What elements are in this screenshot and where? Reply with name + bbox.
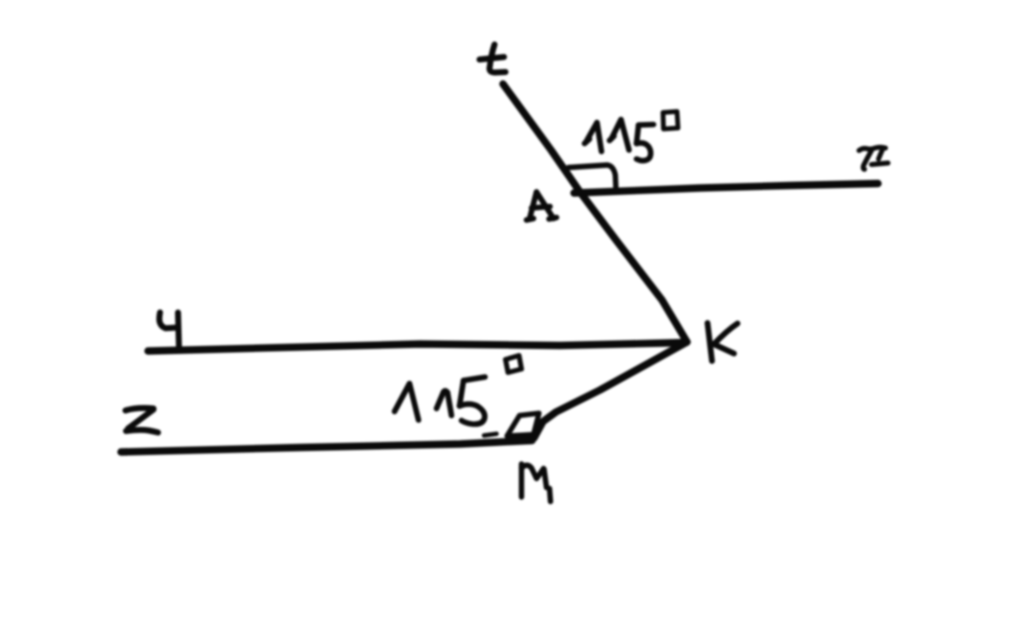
label x bbox=[859, 147, 888, 169]
label y bbox=[159, 313, 179, 349]
small tick left of angle marker at M bbox=[484, 434, 497, 436]
angle value 115 deg at A bbox=[585, 112, 679, 161]
label K bbox=[708, 323, 738, 361]
label z bbox=[126, 408, 159, 432]
label A bbox=[527, 192, 557, 220]
ray A to x bbox=[574, 184, 878, 194]
angle marker at A bbox=[565, 165, 617, 191]
angle marker at M bbox=[507, 413, 539, 436]
line K to M bbox=[534, 342, 687, 438]
ray M to z bbox=[121, 441, 532, 453]
angle value 115 deg at M bbox=[395, 356, 522, 425]
ray K to y bbox=[148, 343, 686, 352]
label M bbox=[522, 464, 551, 502]
label t bbox=[480, 45, 506, 73]
line t through A to K bbox=[503, 84, 687, 342]
